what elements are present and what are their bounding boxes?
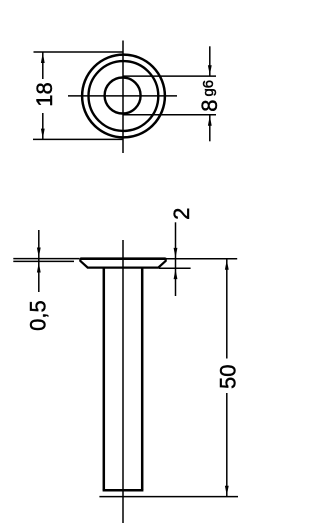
svg-text:0,5: 0,5 bbox=[26, 300, 51, 331]
svg-text:18: 18 bbox=[32, 82, 57, 106]
svg-text:50: 50 bbox=[216, 365, 241, 389]
svg-text:2: 2 bbox=[169, 208, 194, 220]
